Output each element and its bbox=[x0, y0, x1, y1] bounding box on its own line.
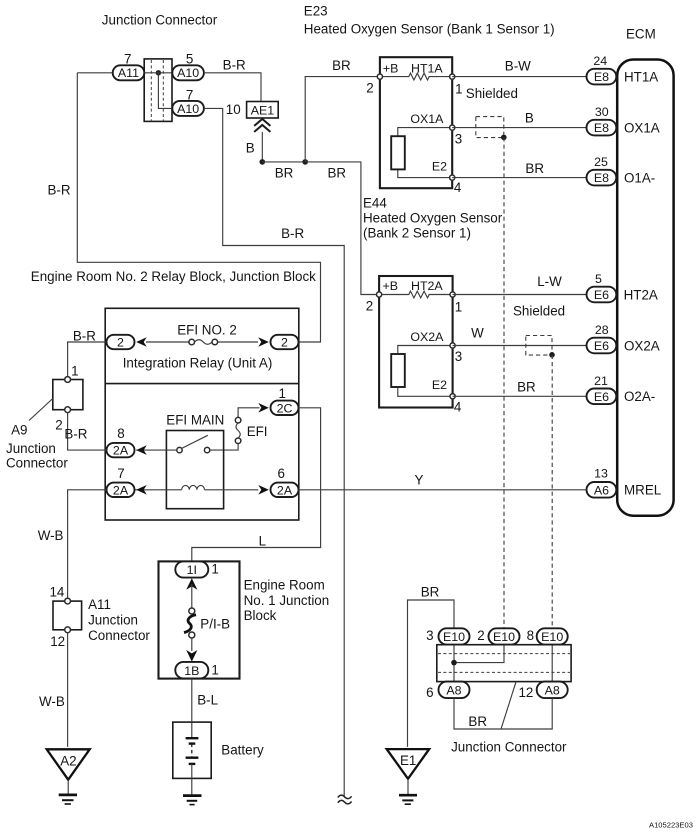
svg-text:Heated Oxygen Sensor (Bank 1 S: Heated Oxygen Sensor (Bank 1 Sensor 1) bbox=[304, 21, 555, 36]
svg-text:1B: 1B bbox=[184, 664, 199, 678]
svg-text:4: 4 bbox=[454, 180, 462, 195]
relay coil bbox=[135, 485, 259, 489]
svg-text:B-R: B-R bbox=[281, 226, 304, 241]
svg-text:2A: 2A bbox=[113, 444, 129, 458]
svg-text:B-R: B-R bbox=[64, 426, 87, 441]
wire A11 to connector bbox=[77, 72, 113, 74]
svg-text:A6: A6 bbox=[594, 483, 609, 497]
fuse EFI bbox=[235, 417, 241, 443]
arrow into 2A(7) bbox=[136, 485, 147, 495]
arrow into 2A(8) bbox=[136, 445, 147, 455]
pin oval 2A (8) bbox=[107, 443, 135, 458]
pin oval A8 (12) bbox=[537, 682, 568, 699]
pin oval 2 (left) bbox=[107, 335, 135, 350]
svg-text:E6: E6 bbox=[594, 390, 609, 404]
wire W E44 pin3 to ECM OX2A bbox=[453, 345, 587, 347]
wire B-W E23 pin1 to ECM HT1A bbox=[452, 76, 586, 78]
pin oval 1I bbox=[175, 561, 208, 577]
wire BR E44 pin4 to ECM O2A- bbox=[453, 395, 587, 397]
node dot 1 bbox=[260, 159, 266, 165]
svg-text:EFI MAIN: EFI MAIN bbox=[166, 412, 224, 427]
svg-text:O1A-: O1A- bbox=[624, 171, 655, 186]
junction connector A9 bbox=[53, 377, 83, 413]
svg-text:B: B bbox=[525, 110, 534, 125]
svg-text:7: 7 bbox=[186, 87, 193, 102]
wire switch to pin 2A(8) bbox=[136, 449, 177, 451]
svg-text:E1: E1 bbox=[400, 753, 416, 768]
svg-text:E6: E6 bbox=[594, 339, 609, 353]
wire node1 to node2 bbox=[262, 161, 305, 163]
svg-text:E10: E10 bbox=[443, 630, 465, 644]
wire A9 to 2A(8) bbox=[68, 413, 107, 450]
wire B from AE1 down to node bbox=[261, 132, 263, 162]
arrow into 2C bbox=[258, 403, 269, 413]
arrow up to 1I bbox=[186, 578, 197, 590]
pin oval 2C bbox=[271, 401, 299, 416]
A9 pointer line bbox=[29, 399, 53, 421]
junction connector A11 bbox=[53, 598, 82, 633]
svg-text:BR: BR bbox=[468, 714, 487, 729]
svg-text:HT2A: HT2A bbox=[624, 288, 658, 303]
wire EFI fuse to relay switch bbox=[210, 444, 238, 451]
svg-text:W-B: W-B bbox=[38, 528, 64, 543]
shield drain dashed wire to junction connector E10(8) bbox=[551, 355, 553, 628]
svg-text:BR: BR bbox=[332, 58, 351, 73]
svg-text:1: 1 bbox=[71, 363, 78, 378]
svg-text:Connector: Connector bbox=[6, 456, 68, 471]
pin oval A11 bbox=[113, 65, 145, 80]
E23 pin 4 bbox=[450, 175, 455, 180]
fuse P/I-B bbox=[184, 608, 196, 638]
svg-text:3: 3 bbox=[426, 628, 433, 643]
svg-text:E44: E44 bbox=[363, 196, 387, 211]
wire B-R from A11 via left side to integration relay pin 2 (right) bbox=[77, 73, 320, 342]
svg-text:BR: BR bbox=[327, 165, 346, 180]
svg-text:Y: Y bbox=[415, 473, 424, 488]
junction connector block (top left) body bbox=[144, 59, 172, 122]
pin oval 1B bbox=[175, 662, 208, 679]
wire B-R long run from A10 pin7 down to break bbox=[204, 108, 344, 796]
ECM pin E6 (5) bbox=[587, 287, 617, 303]
arrow into pin 2 left bbox=[136, 337, 147, 347]
pin oval 2A (7) bbox=[107, 483, 135, 498]
svg-text:Integration Relay (Unit A): Integration Relay (Unit A) bbox=[123, 355, 273, 370]
shield drain node dot bbox=[501, 135, 507, 141]
svg-text:EFI NO. 2: EFI NO. 2 bbox=[177, 323, 237, 338]
svg-text:2: 2 bbox=[477, 628, 484, 643]
pin oval A8 (6) bbox=[439, 682, 470, 699]
svg-text:6: 6 bbox=[277, 466, 284, 481]
svg-text:A8: A8 bbox=[545, 684, 560, 698]
svg-text:13: 13 bbox=[594, 467, 608, 481]
svg-text:25: 25 bbox=[594, 155, 608, 169]
svg-text:Battery: Battery bbox=[221, 743, 264, 758]
pin oval E10 (2) bbox=[489, 628, 520, 644]
ground symbol A2 bbox=[59, 780, 77, 804]
wire BR loop A8(6) to A8(12) bbox=[454, 698, 552, 729]
svg-text:1: 1 bbox=[211, 662, 218, 677]
svg-text:Shielded: Shielded bbox=[466, 86, 518, 101]
svg-text:B-W: B-W bbox=[505, 59, 531, 74]
wire to fuse bbox=[191, 584, 193, 608]
ECM pin E6 (28) bbox=[587, 338, 617, 354]
wire BR E23 pin4 to ECM O1A- bbox=[452, 177, 586, 179]
svg-text:L-W: L-W bbox=[537, 274, 562, 289]
arrow into pin 2 right bbox=[258, 337, 269, 347]
svg-text:HT1A: HT1A bbox=[411, 61, 443, 75]
shield symbol (bank1) dashed box bbox=[476, 117, 504, 138]
svg-text:OX1A: OX1A bbox=[410, 112, 444, 126]
svg-text:OX2A: OX2A bbox=[410, 330, 444, 344]
svg-text:Connector: Connector bbox=[88, 628, 150, 643]
ECM body bbox=[617, 60, 673, 516]
relay block body bbox=[105, 308, 299, 520]
svg-text:28: 28 bbox=[595, 323, 609, 337]
svg-text:E6: E6 bbox=[594, 288, 609, 302]
svg-text:30: 30 bbox=[595, 105, 609, 119]
svg-text:2: 2 bbox=[366, 81, 373, 96]
svg-text:A2: A2 bbox=[60, 753, 76, 768]
wire L-W E44 pin1 to ECM HT2A bbox=[453, 294, 587, 296]
wire fuse to arrow bbox=[191, 638, 193, 651]
svg-text:2: 2 bbox=[281, 336, 288, 350]
svg-text:B-R: B-R bbox=[48, 182, 71, 197]
svg-text:Shielded: Shielded bbox=[513, 303, 565, 318]
svg-text:OX1A: OX1A bbox=[624, 121, 660, 136]
svg-text:4: 4 bbox=[454, 399, 462, 414]
svg-text:1I: 1I bbox=[187, 563, 197, 577]
internal wire E10(8)-A8(12) bbox=[551, 645, 553, 682]
svg-text:12: 12 bbox=[50, 634, 65, 649]
svg-text:Junction: Junction bbox=[6, 441, 56, 456]
E44 pin 3 bbox=[450, 343, 455, 348]
svg-text:W: W bbox=[471, 325, 484, 340]
pin oval E10 (8) bbox=[537, 628, 568, 644]
svg-text:A11: A11 bbox=[118, 66, 139, 80]
pin oval 2 (right) bbox=[271, 335, 299, 350]
svg-text:Block: Block bbox=[244, 608, 277, 623]
svg-text:E10: E10 bbox=[541, 630, 563, 644]
svg-text:L: L bbox=[259, 534, 266, 549]
junction connector (bottom right) body bbox=[437, 645, 571, 682]
E44 heater wire with resistor bbox=[379, 291, 453, 298]
wire Y from 2A(6) to ECM MREL bbox=[299, 489, 587, 491]
svg-text:HT1A: HT1A bbox=[624, 70, 658, 85]
E23 heater wire with resistor bbox=[380, 73, 452, 80]
svg-text:A10: A10 bbox=[177, 102, 199, 116]
svg-text:1: 1 bbox=[278, 386, 285, 401]
svg-text:AE1: AE1 bbox=[251, 104, 275, 118]
relay EFI MAIN body bbox=[166, 431, 223, 509]
ECM pin E6 (21) bbox=[587, 389, 617, 405]
connector AE1 bbox=[247, 102, 279, 119]
svg-text:HT2A: HT2A bbox=[411, 279, 443, 293]
svg-text:A105223E03: A105223E03 bbox=[649, 820, 693, 829]
battery ground bbox=[183, 778, 202, 804]
svg-text:Engine Room No. 2 Relay Block,: Engine Room No. 2 Relay Block, Junction … bbox=[31, 269, 316, 284]
svg-text:14: 14 bbox=[49, 584, 64, 599]
svg-text:MREL: MREL bbox=[624, 482, 661, 497]
svg-text:W-B: W-B bbox=[39, 694, 65, 709]
svg-text:1: 1 bbox=[211, 562, 218, 577]
wire B-L from 1B to battery bbox=[191, 678, 193, 722]
E44 pin 2 bbox=[377, 292, 382, 297]
wire 2C to EFI fuse bbox=[238, 408, 259, 418]
ECM pin E8 (30) bbox=[587, 120, 617, 136]
svg-text:7: 7 bbox=[117, 466, 124, 481]
break symbol (wire continues) bbox=[338, 795, 352, 804]
svg-text:21: 21 bbox=[594, 374, 608, 388]
svg-text:B-R: B-R bbox=[223, 57, 246, 72]
wire W-B from 2A(7) to A11 junction connector bbox=[68, 490, 107, 598]
svg-text:Junction: Junction bbox=[88, 613, 138, 628]
svg-text:+B: +B bbox=[383, 279, 399, 293]
wire BR node2 up to E23 +B bbox=[305, 77, 380, 162]
svg-text:8: 8 bbox=[527, 628, 534, 643]
E23 pin 3 bbox=[450, 125, 455, 130]
wire BR to junction connector E10(3) and ground E1 bbox=[408, 600, 455, 747]
svg-text:E8: E8 bbox=[594, 171, 609, 185]
pin oval A10 (pin 5) bbox=[172, 65, 204, 80]
svg-text:5: 5 bbox=[595, 272, 602, 286]
ECM pin E8 (25) bbox=[587, 170, 617, 186]
svg-text:E10: E10 bbox=[493, 630, 515, 644]
svg-text:7: 7 bbox=[124, 52, 131, 67]
svg-text:O2A-: O2A- bbox=[624, 389, 655, 404]
svg-text:2A: 2A bbox=[277, 483, 293, 497]
svg-text:2: 2 bbox=[366, 299, 373, 314]
svg-text:ECM: ECM bbox=[626, 27, 656, 42]
internal wire bbox=[144, 73, 172, 109]
ECM pin A6 (13) bbox=[587, 482, 617, 498]
node dot 2 bbox=[302, 159, 308, 165]
svg-text:2A: 2A bbox=[113, 483, 129, 497]
relay switch contacts bbox=[177, 435, 210, 453]
svg-text:8: 8 bbox=[117, 426, 124, 441]
E23 pin 2 bbox=[377, 74, 382, 79]
shield drain dashed wire to junction connector E10(2) bbox=[503, 137, 505, 628]
heated oxygen sensor E44 body bbox=[379, 276, 453, 408]
svg-text:3: 3 bbox=[455, 131, 462, 146]
wire BR node2 to E44 +B bbox=[305, 162, 379, 295]
svg-text:+B: +B bbox=[383, 61, 399, 75]
junction block No.1 body bbox=[159, 561, 240, 678]
heated oxygen sensor E23 body bbox=[380, 57, 452, 188]
wire B-R from A10 pin5 to AE1 bbox=[204, 73, 261, 102]
svg-text:B-R: B-R bbox=[73, 328, 96, 343]
svg-text:BR: BR bbox=[517, 380, 536, 395]
internal junction dot bbox=[451, 660, 457, 666]
svg-text:P/I-B: P/I-B bbox=[200, 616, 230, 631]
ECM pin E8 (24) bbox=[587, 69, 617, 85]
svg-text:Junction Connector: Junction Connector bbox=[102, 12, 218, 27]
svg-text:E2: E2 bbox=[432, 159, 447, 173]
svg-text:B: B bbox=[246, 141, 255, 156]
svg-text:OX2A: OX2A bbox=[624, 339, 660, 354]
arrow into 2A(6) bbox=[258, 485, 269, 495]
fuse EFI NO. 2 bbox=[146, 339, 258, 345]
svg-text:(Bank 2 Sensor 1): (Bank 2 Sensor 1) bbox=[363, 226, 471, 241]
svg-text:Engine Room: Engine Room bbox=[244, 578, 325, 593]
ground triangle A2 bbox=[47, 749, 90, 779]
svg-text:6: 6 bbox=[426, 685, 433, 700]
shield drain node dot bbox=[549, 352, 555, 358]
svg-text:E8: E8 bbox=[594, 70, 609, 84]
ground triangle E1 bbox=[387, 749, 430, 779]
svg-text:A9: A9 bbox=[11, 423, 27, 438]
pin oval A10 (pin 7) bbox=[172, 101, 204, 116]
svg-text:3: 3 bbox=[455, 349, 462, 364]
battery cells bbox=[186, 722, 199, 778]
svg-text:2: 2 bbox=[55, 417, 62, 432]
svg-text:12: 12 bbox=[518, 685, 533, 700]
svg-text:B-L: B-L bbox=[197, 692, 218, 707]
shield symbol (bank2) dashed box bbox=[526, 336, 552, 356]
svg-text:10: 10 bbox=[226, 102, 241, 117]
E44 pin 4 bbox=[450, 394, 455, 399]
ground symbol E1 bbox=[399, 779, 417, 804]
svg-text:E2: E2 bbox=[432, 378, 447, 392]
wire L from 2C to junction block 1I bbox=[192, 408, 321, 562]
svg-text:EFI: EFI bbox=[247, 424, 268, 439]
svg-text:No. 1 Junction: No. 1 Junction bbox=[244, 593, 330, 608]
wire into integration relay pin 2 left bbox=[68, 342, 107, 377]
arrow down to 1B bbox=[186, 650, 197, 662]
svg-text:1: 1 bbox=[455, 82, 462, 97]
svg-text:BR: BR bbox=[525, 161, 544, 176]
E44 pin 1 bbox=[450, 292, 455, 297]
svg-text:E23: E23 bbox=[304, 4, 328, 19]
svg-text:Junction Connector: Junction Connector bbox=[451, 739, 567, 754]
svg-text:1: 1 bbox=[455, 300, 462, 315]
svg-text:24: 24 bbox=[593, 54, 607, 68]
wire B E23 pin3 to ECM OX1A bbox=[452, 127, 586, 129]
svg-text:Heated Oxygen Sensor: Heated Oxygen Sensor bbox=[363, 211, 503, 226]
internal junction dot bbox=[156, 70, 161, 75]
svg-text:A10: A10 bbox=[177, 66, 199, 80]
E44 sensor element (zirconia cell) bbox=[391, 346, 452, 397]
svg-text:A11: A11 bbox=[88, 597, 111, 612]
pointer line to junction connector bbox=[501, 682, 516, 729]
E23 pin 1 bbox=[450, 74, 455, 79]
pin oval 2A (6) bbox=[271, 483, 299, 498]
battery body bbox=[173, 722, 211, 778]
E23 sensor element (zirconia cell) bbox=[391, 128, 452, 178]
svg-text:BR: BR bbox=[421, 585, 440, 600]
internal wire E10(3)-A8(6) with branch to E10(2) bbox=[454, 645, 504, 682]
shield chevrons below AE1 bbox=[254, 119, 270, 132]
svg-text:BR: BR bbox=[275, 165, 294, 180]
svg-text:2: 2 bbox=[117, 336, 124, 350]
svg-text:A8: A8 bbox=[446, 684, 461, 698]
svg-text:2C: 2C bbox=[277, 401, 293, 415]
pin oval E10 (3) bbox=[439, 628, 470, 644]
wire W-B from A11 to ground A2 bbox=[67, 633, 69, 747]
svg-text:E8: E8 bbox=[594, 121, 609, 135]
svg-text:5: 5 bbox=[186, 52, 193, 67]
